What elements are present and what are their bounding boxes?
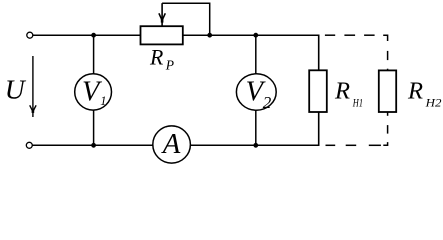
dashed wire top to RH2	[325, 35, 388, 70]
wire RH1 branch upper	[318, 35, 320, 71]
wire bottom from left terminal to ammeter	[32, 144, 153, 146]
node: V1 top junction	[91, 33, 96, 38]
svg-text:2: 2	[263, 93, 272, 112]
svg-text:1: 1	[100, 94, 106, 108]
svg-text:R: R	[407, 78, 423, 105]
node: V2 top junction	[253, 33, 258, 38]
wire V1 branch lower	[93, 110, 95, 145]
resistor RH2	[379, 70, 396, 112]
svg-text:H1: H1	[352, 97, 363, 109]
resistor RH1	[309, 70, 327, 112]
node: V2 bottom junction	[253, 143, 258, 148]
svg-text:A: A	[161, 128, 181, 160]
wire top from left terminal to rheostat	[33, 34, 141, 36]
voltmeter V2	[236, 74, 276, 110]
wiper loop wire	[162, 3, 210, 35]
svg-text:R: R	[334, 78, 350, 105]
arrow U (voltage direction)	[30, 56, 36, 117]
svg-text:H2: H2	[425, 97, 442, 109]
terminal top-left	[27, 32, 33, 38]
wire V2 branch lower	[255, 110, 257, 145]
rheostat wiper arrow	[159, 3, 165, 25]
wire RH1 branch lower	[318, 112, 320, 146]
wire V2 branch upper	[255, 35, 257, 74]
node: wiper joins top wire	[207, 33, 212, 38]
wire bottom from ammeter to RH1 branch corner	[190, 144, 318, 146]
node: V1 bottom junction	[91, 143, 96, 148]
svg-text:U: U	[5, 74, 27, 105]
wire top from rheostat to RH1 branch corner	[183, 34, 319, 36]
svg-text:R: R	[149, 45, 163, 69]
ammeter A	[153, 126, 191, 163]
wire V1 branch upper	[93, 35, 95, 73]
dashed wire bottom from RH2	[326, 112, 388, 145]
terminal bottom-left	[26, 142, 32, 148]
voltmeter V1	[75, 74, 112, 110]
svg-text:P: P	[165, 58, 174, 73]
rheostat RP body	[141, 26, 183, 44]
